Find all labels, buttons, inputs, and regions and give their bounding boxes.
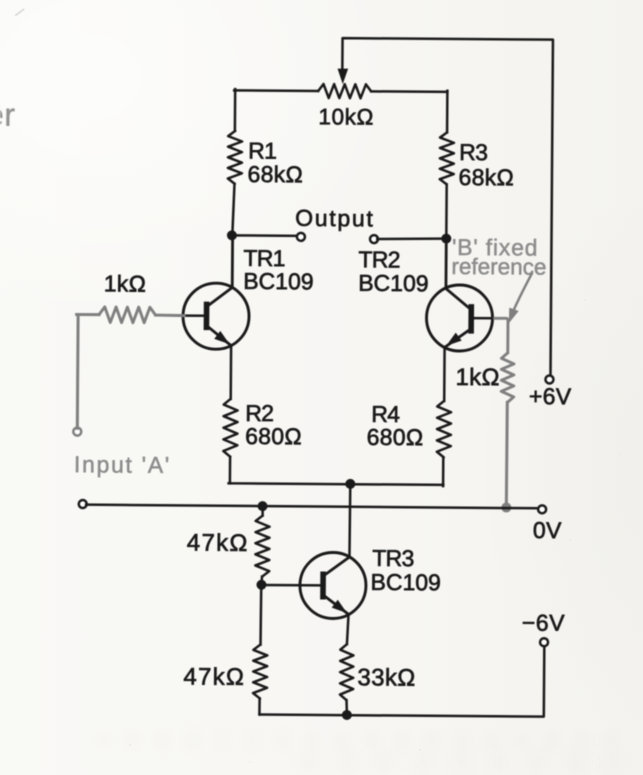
terminal -6V <box>540 638 548 646</box>
svg-text:10kΩ: 10kΩ <box>318 104 374 129</box>
resistor R4 <box>437 401 451 458</box>
svg-text:BC109: BC109 <box>243 268 314 295</box>
wire 47k lower to bottom rail <box>258 699 261 715</box>
wire 33k to bottom rail <box>345 700 348 715</box>
wire output left <box>232 234 297 237</box>
wire R4 to tail rail <box>442 457 445 486</box>
svg-text:TR2: TR2 <box>358 246 400 272</box>
terminal Output (right) <box>370 235 378 243</box>
node 33k on bottom rail <box>342 710 352 720</box>
resistor R3 <box>440 132 454 184</box>
wire R3 to collector node <box>445 184 448 238</box>
wire base node to TR3 <box>262 584 323 587</box>
svg-text:47kΩ: 47kΩ <box>183 663 245 690</box>
wire 1k gray to 0V rail <box>505 402 509 504</box>
node tail junction <box>345 479 355 489</box>
wire top of R3 <box>446 91 449 133</box>
terminal Input A <box>73 428 81 436</box>
TR3 emitter lead <box>324 596 348 614</box>
resistor 1kΩ input (gray) <box>99 307 156 323</box>
svg-text:47kΩ: 47kΩ <box>187 530 249 557</box>
wire TR2 base to 1k gray (bend) <box>494 318 508 353</box>
TR2 emitter arrow <box>446 333 461 346</box>
potentiometer 10k (track) <box>318 84 371 98</box>
TR3 collector lead <box>325 557 350 575</box>
transistor TR3 circle <box>300 552 366 618</box>
wire input A horizontal (gray) <box>77 313 99 316</box>
TR1 base lead (inside) <box>184 314 206 317</box>
wire emitter TR1 to R2 <box>229 345 232 398</box>
svg-text:R3: R3 <box>459 139 487 165</box>
resistor R1 <box>228 131 242 184</box>
terminal 0V right <box>538 505 546 513</box>
wire 0V rail <box>86 505 539 509</box>
node 47k top on 0V rail <box>257 501 267 511</box>
TR2 base lead <box>470 317 497 320</box>
svg-text:Input 'A': Input 'A' <box>74 451 171 478</box>
svg-text:+6V: +6V <box>529 383 572 409</box>
terminal +6V <box>545 375 553 383</box>
TR2 base bar <box>468 304 474 333</box>
TR1 collector lead <box>208 235 233 306</box>
resistor 47kΩ lower <box>253 645 267 699</box>
wire R2 to tail rail <box>229 457 232 483</box>
svg-text:er: er <box>0 97 16 133</box>
faint show-through of print from reverse page (bottom) <box>95 733 620 748</box>
node gray junction on 0V rail <box>501 503 511 513</box>
resistor R2 <box>223 399 237 457</box>
svg-text:BC109: BC109 <box>370 569 441 596</box>
terminal Output (left) <box>297 233 305 241</box>
TR3 base bar <box>320 572 326 600</box>
svg-text:reference: reference <box>451 254 546 280</box>
wire diff-pair tail rail <box>229 483 444 485</box>
wire 0V to 47k upper <box>261 506 264 515</box>
wire pot left lead <box>234 89 318 92</box>
wire from potentiometer wiper to +6V rail (top loop) <box>340 38 553 376</box>
wire output right <box>377 238 442 239</box>
wire pot right lead <box>371 90 447 93</box>
TR1 emitter lead <box>208 327 231 346</box>
transistor TR2 circle <box>426 285 492 351</box>
wire top of R1 <box>234 89 237 131</box>
TR1 base bar <box>204 302 210 330</box>
node TR3 base junction <box>256 580 266 590</box>
wire TR3 emitter to 33k <box>347 614 349 644</box>
svg-text:TR3: TR3 <box>372 545 414 571</box>
svg-text:1kΩ: 1kΩ <box>455 364 499 391</box>
faint pencil mark top-left <box>16 9 24 15</box>
TR1 emitter arrow <box>214 331 229 344</box>
wire base node to 47k lower <box>259 585 262 645</box>
svg-text:680Ω: 680Ω <box>245 423 302 449</box>
svg-text:33kΩ: 33kΩ <box>357 664 415 691</box>
resistor 1kΩ reference (gray) <box>501 353 514 403</box>
TR3 emitter arrow <box>332 600 347 613</box>
TR2 emitter lead <box>445 330 469 347</box>
wire emitter TR2 to R4 <box>443 347 446 401</box>
svg-text:68kΩ: 68kΩ <box>247 161 303 187</box>
TR2 collector lead <box>446 239 469 308</box>
node collector TR2 <box>441 234 451 244</box>
svg-text:Output: Output <box>295 205 374 232</box>
svg-text:BC109: BC109 <box>358 270 429 297</box>
svg-text:1kΩ: 1kΩ <box>104 270 147 296</box>
svg-text:−6V: −6V <box>522 609 566 635</box>
node collector TR1 / output A <box>227 230 237 240</box>
svg-text:R1: R1 <box>248 137 276 163</box>
wire 47k upper to base node <box>260 577 263 585</box>
svg-text:68kΩ: 68kΩ <box>458 164 514 190</box>
svg-text:680Ω: 680Ω <box>367 424 424 450</box>
resistor 47kΩ upper <box>255 516 269 577</box>
wire input A vertical (gray) <box>76 315 80 429</box>
wire tail to TR3 collector <box>348 484 351 557</box>
terminal 0V left <box>79 500 87 508</box>
wire R1 to collector node <box>232 184 234 236</box>
annotation arrow to TR2 base <box>514 272 533 310</box>
wire 1kΩ to TR1 base (gray) <box>156 314 185 318</box>
wire bottom rail <box>259 644 544 717</box>
resistor 33kΩ <box>340 644 354 700</box>
wiper arrowhead pointing down at potentiometer <box>337 69 348 85</box>
transistor TR1 circle <box>183 283 249 349</box>
svg-text:0V: 0V <box>533 517 562 543</box>
